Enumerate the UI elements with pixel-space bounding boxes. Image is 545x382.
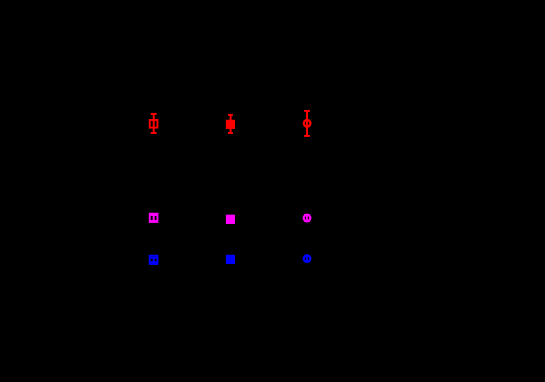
error bar, red point 2 — [228, 115, 233, 133]
error bar, magenta point 1 — [151, 215, 157, 221]
error bar, red point 1 — [151, 114, 157, 133]
error bar, magenta point 2 — [228, 217, 233, 222]
marker: red open square, point 1 — [150, 120, 158, 128]
marker: blue filled square, point 2 — [226, 255, 235, 264]
error bar, blue point 3 — [304, 256, 310, 261]
error bar, red point 3 — [304, 111, 310, 136]
error bar, blue point 2 — [228, 257, 233, 262]
marker: magenta open circle, point 3 — [304, 215, 311, 222]
error bar, blue point 1 — [151, 258, 157, 262]
error bar, magenta point 3 — [304, 215, 310, 221]
marker: blue open circle, point 3 — [304, 255, 311, 262]
marker: blue open square, point 1 — [150, 256, 158, 264]
marker: magenta open square, point 1 — [150, 214, 158, 222]
marker: red open circle, point 3 — [304, 120, 311, 127]
marker: red filled square, point 2 — [226, 120, 235, 129]
marker: magenta filled square, point 2 — [226, 215, 235, 224]
